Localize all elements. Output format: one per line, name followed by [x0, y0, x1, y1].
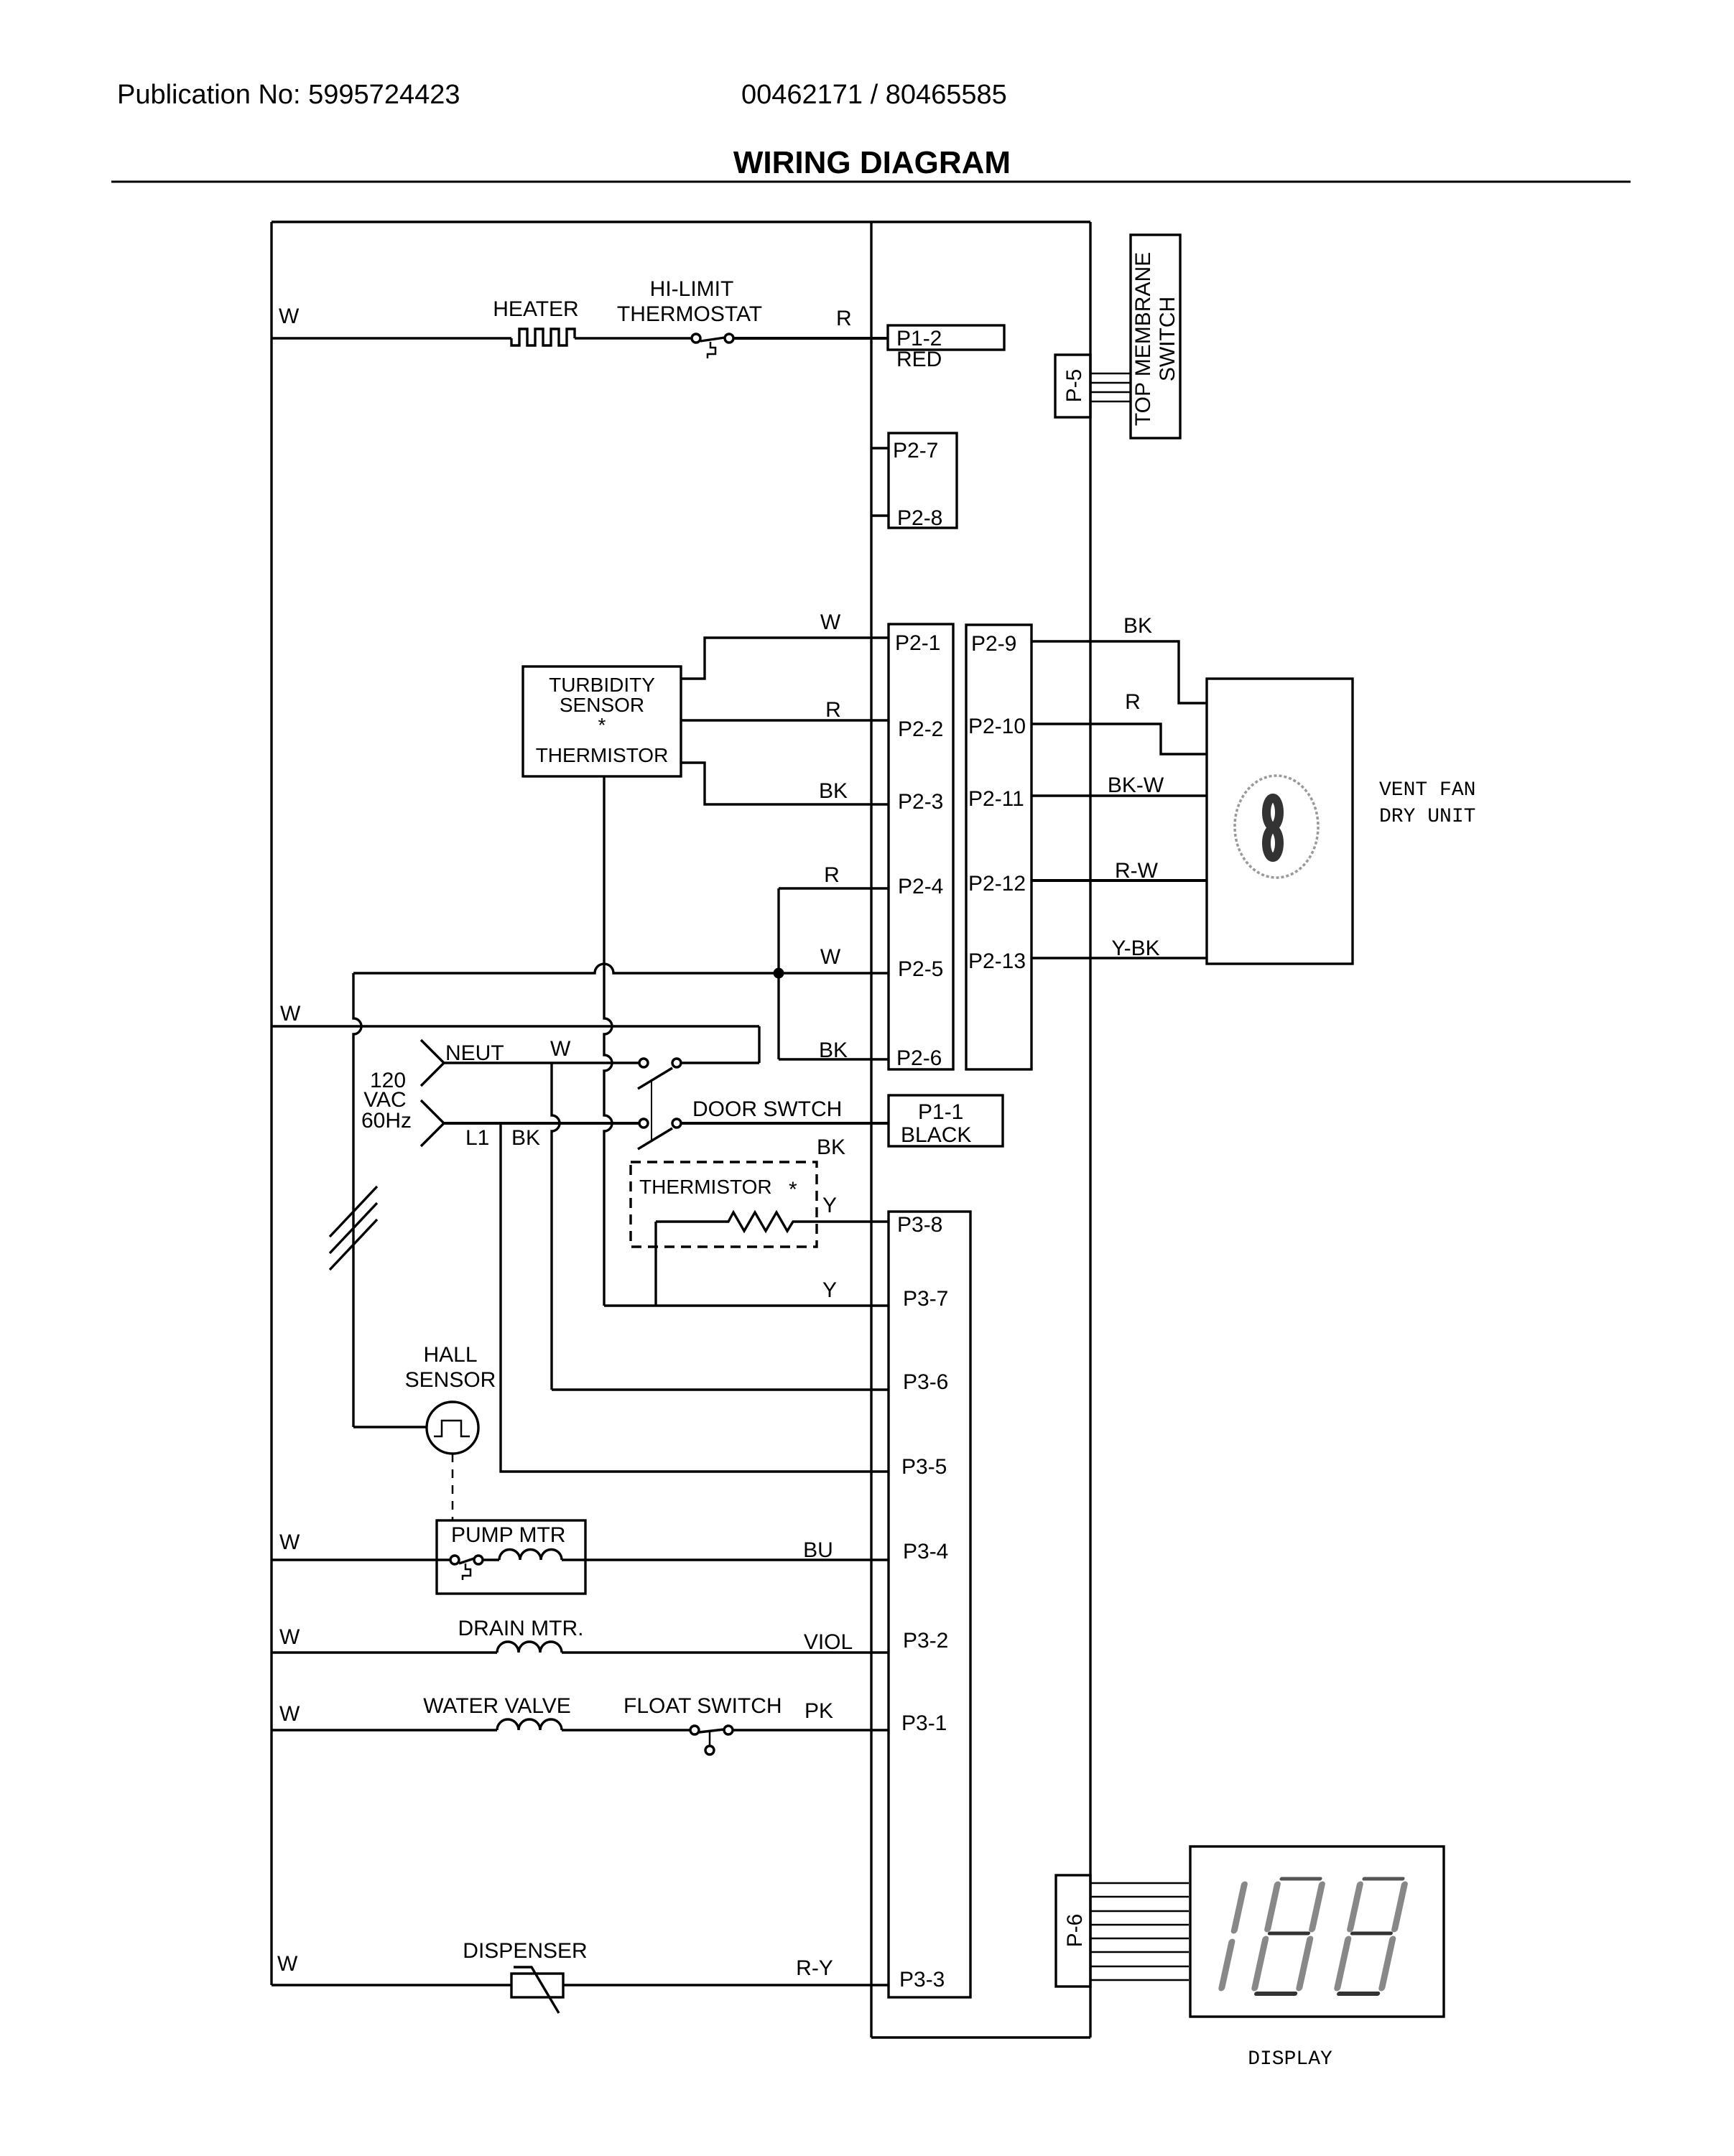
- title rule: [111, 181, 1631, 183]
- thermistor dashed box: [631, 1162, 817, 1247]
- svg-text:WATER VALVE: WATER VALVE: [423, 1694, 571, 1718]
- wire BK branch L1 down to P3-5: [501, 1123, 889, 1472]
- wire turbidity sensor down to Y net: [604, 776, 612, 1306]
- wire top edge of schematic frame: [272, 220, 1090, 223]
- top membrane switch box: [1131, 235, 1180, 438]
- control board bottom edge: [871, 2036, 1090, 2038]
- svg-text:Y: Y: [822, 1194, 837, 1217]
- svg-text:Y: Y: [822, 1278, 837, 1302]
- svg-text:P2-7: P2-7: [893, 439, 938, 463]
- svg-text:R: R: [836, 307, 852, 330]
- drain motor winding: [497, 1642, 562, 1653]
- svg-text:DOOR SWTCH: DOOR SWTCH: [692, 1097, 842, 1121]
- wire door switch to W rail riser: [681, 1061, 759, 1064]
- door switch mechanical link: [651, 1080, 652, 1140]
- wire BK P2-9 to vent fan: [1031, 641, 1207, 703]
- wire R to P2-4: [779, 887, 889, 889]
- svg-text:THERMISTOR: THERMISTOR: [536, 744, 669, 766]
- wire valve to float switch: [562, 1729, 690, 1731]
- svg-text:P2-3: P2-3: [898, 790, 943, 814]
- svg-text:SENSOR: SENSOR: [560, 694, 644, 716]
- svg-text:P2-8: P2-8: [897, 506, 942, 530]
- pump winding: [483, 1558, 499, 1561]
- dispenser element: [511, 1974, 563, 1997]
- wire heater to thermostat: [575, 337, 692, 339]
- svg-text:60Hz: 60Hz: [361, 1109, 412, 1133]
- wire P-5 ribbon 4: [1090, 401, 1131, 403]
- connector P-6: [1056, 1875, 1090, 1987]
- wire P-5 ribbon 1: [1090, 373, 1131, 375]
- svg-text:Publication No: 5995724423: Publication No: 5995724423: [117, 80, 460, 110]
- svg-text:Y-BK: Y-BK: [1111, 937, 1159, 960]
- wire P-6 ribbon: [1090, 1882, 1189, 1885]
- node NEUT chevron: [421, 1040, 444, 1086]
- svg-text:W: W: [820, 945, 841, 969]
- control board right edge: [1089, 222, 1091, 2037]
- svg-text:P3-2: P3-2: [903, 1629, 948, 1653]
- wire BK-W P2-11 to vent fan: [1031, 794, 1207, 796]
- node junction dot W bus: [774, 968, 784, 978]
- svg-text:THERMISTOR: THERMISTOR: [639, 1176, 772, 1198]
- svg-text:W: W: [277, 1952, 298, 1976]
- turbidity sensor box: [523, 666, 681, 776]
- svg-text:DISPENSER: DISPENSER: [463, 1939, 587, 1963]
- wire Y-BK P2-13 to vent fan: [1031, 957, 1207, 959]
- svg-text:DRY UNIT: DRY UNIT: [1379, 806, 1475, 828]
- connector P2-7 P2-8 box: [889, 433, 957, 528]
- float switch: [690, 1726, 699, 1734]
- svg-text:P-6: P-6: [1063, 1914, 1087, 1948]
- wire bus P2-4 to P2-6: [777, 888, 779, 1059]
- svg-text:WIRING DIAGRAM: WIRING DIAGRAM: [733, 145, 1011, 180]
- wire thermistor left leg: [654, 1222, 657, 1306]
- svg-text:W: W: [280, 1002, 301, 1026]
- svg-text:P3-6: P3-6: [903, 1370, 948, 1394]
- svg-text:BK: BK: [817, 1135, 845, 1159]
- svg-text:L1: L1: [465, 1126, 489, 1150]
- svg-text:BK: BK: [511, 1126, 540, 1150]
- wire pin P2-7: [871, 447, 889, 449]
- svg-text:DRAIN MTR.: DRAIN MTR.: [458, 1617, 584, 1640]
- svg-text:VIOL: VIOL: [804, 1630, 853, 1654]
- svg-text:BU: BU: [803, 1538, 833, 1562]
- svg-text:P2-4: P2-4: [898, 875, 943, 898]
- wire hall sensor to pump dashed: [452, 1454, 454, 1520]
- wire PK float switch to P3-1: [733, 1729, 889, 1731]
- heater HEATER element: [511, 329, 575, 345]
- svg-text:SENSOR: SENSOR: [405, 1368, 496, 1392]
- wire R-W P2-12 to vent fan: [1031, 879, 1207, 882]
- svg-text:BK: BK: [819, 779, 848, 803]
- vent fan dry unit box: [1207, 679, 1353, 964]
- svg-text:TURBIDITY: TURBIDITY: [549, 674, 655, 696]
- display seven-segment digits: [1222, 1879, 1406, 1994]
- svg-text:00462171 / 80465585: 00462171 / 80465585: [741, 80, 1007, 110]
- svg-text:BK: BK: [1123, 614, 1152, 638]
- connector P1-1 BLACK: [889, 1095, 1003, 1146]
- wire Y to P3-7: [604, 1304, 889, 1306]
- wire VIOL drain to P3-2: [562, 1651, 889, 1653]
- svg-text:R: R: [1125, 690, 1141, 714]
- wire pin P2-8: [871, 514, 889, 516]
- wire W to pump: [272, 1558, 450, 1561]
- svg-text:P3-3: P3-3: [899, 1968, 945, 1992]
- display box: [1190, 1846, 1444, 2017]
- svg-text:*: *: [789, 1178, 797, 1202]
- svg-text:HEATER: HEATER: [493, 297, 578, 321]
- thermistor resistor: [656, 1212, 889, 1231]
- connector P1-2 RED: [888, 325, 1004, 350]
- wire R thermostat to P1-2: [733, 337, 888, 340]
- svg-text:P2-1: P2-1: [895, 631, 940, 655]
- door switch pole 2: [639, 1119, 648, 1128]
- svg-text:P-5: P-5: [1062, 369, 1086, 403]
- wire BK door switch to P1-1: [681, 1122, 889, 1125]
- wire R P2-10 to vent fan: [1031, 724, 1207, 754]
- connector P2-1..P2-6 box: [889, 624, 953, 1069]
- pump motor box: [437, 1520, 585, 1594]
- wire R-Y dispenser to P3-3: [563, 1984, 889, 1986]
- svg-text:*: *: [598, 714, 606, 736]
- svg-text:P2-13: P2-13: [968, 949, 1026, 973]
- wire BU pump to P3-4: [562, 1558, 889, 1561]
- svg-text:P2-9: P2-9: [971, 632, 1016, 656]
- svg-text:P2-6: P2-6: [896, 1046, 942, 1070]
- connector P-5: [1055, 355, 1090, 417]
- svg-text:P2-2: P2-2: [898, 717, 943, 741]
- svg-text:HALL: HALL: [423, 1343, 477, 1367]
- svg-text:R-Y: R-Y: [796, 1956, 833, 1980]
- svg-text:P3-5: P3-5: [901, 1455, 947, 1479]
- svg-text:P2-10: P2-10: [968, 715, 1026, 738]
- wire W to drain motor: [272, 1651, 497, 1653]
- svg-text:P3-1: P3-1: [901, 1711, 947, 1735]
- wire R turbidity to P2-2: [681, 719, 889, 721]
- wire W branch NEUT down to P3-6: [552, 1063, 560, 1390]
- svg-text:W: W: [279, 1702, 300, 1726]
- svg-text:P2-5: P2-5: [898, 957, 943, 981]
- svg-text:P1-1: P1-1: [918, 1100, 963, 1124]
- svg-text:R: R: [825, 698, 841, 722]
- vent fan symbol: [1235, 776, 1318, 878]
- wire W to heater: [272, 337, 511, 339]
- wire W rail branch down to hall sensor: [353, 973, 361, 1427]
- svg-text:R-W: R-W: [1115, 859, 1159, 883]
- connector P3 box: [889, 1212, 970, 1997]
- svg-text:HI-LIMIT: HI-LIMIT: [650, 277, 734, 301]
- svg-text:P3-4: P3-4: [903, 1540, 948, 1563]
- wire W turbidity to P2-1: [681, 638, 889, 679]
- water valve winding: [497, 1719, 562, 1730]
- wire P-5 ribbon 3: [1090, 391, 1131, 394]
- cable slash marks: [330, 1186, 377, 1237]
- connector P2-9..P2-13 box: [966, 625, 1031, 1069]
- svg-text:W: W: [820, 610, 841, 634]
- svg-text:W: W: [279, 1530, 300, 1554]
- wire W return to left rail: [272, 1025, 759, 1027]
- svg-text:PUMP MTR: PUMP MTR: [451, 1523, 565, 1547]
- wire W to P2-5: [353, 964, 889, 973]
- svg-text:BK: BK: [819, 1038, 848, 1062]
- wire P-5 ribbon 2: [1090, 382, 1131, 384]
- svg-text:P2-11: P2-11: [968, 787, 1024, 811]
- svg-text:W: W: [550, 1037, 571, 1061]
- wire NEUT to door switch: [444, 1061, 639, 1064]
- svg-text:BLACK: BLACK: [901, 1123, 971, 1147]
- svg-text:SWITCH: SWITCH: [1156, 297, 1179, 381]
- svg-text:VENT FAN: VENT FAN: [1379, 779, 1475, 801]
- svg-text:THERMOSTAT: THERMOSTAT: [617, 302, 762, 326]
- svg-text:RED: RED: [896, 348, 942, 371]
- svg-text:R: R: [824, 863, 840, 887]
- wire BK turbidity to P2-3: [681, 763, 889, 804]
- door switch pole 1: [639, 1059, 648, 1067]
- svg-text:P2-12: P2-12: [968, 872, 1026, 896]
- svg-text:PK: PK: [805, 1699, 833, 1723]
- svg-text:W: W: [279, 1625, 300, 1649]
- svg-text:BK-W: BK-W: [1108, 773, 1164, 797]
- pump thermal switch: [450, 1556, 459, 1564]
- wire W to water valve: [272, 1729, 497, 1731]
- svg-text:P3-7: P3-7: [903, 1287, 948, 1311]
- control board left edge: [870, 222, 872, 2037]
- wire left W rail: [270, 222, 272, 1985]
- wire L1 to door switch: [444, 1122, 639, 1125]
- svg-text:FLOAT SWITCH: FLOAT SWITCH: [623, 1694, 782, 1718]
- svg-text:NEUT: NEUT: [445, 1041, 504, 1065]
- svg-text:DISPLAY: DISPLAY: [1248, 2048, 1332, 2071]
- wire BK to P2-6: [779, 1058, 889, 1060]
- node L1 chevron: [421, 1100, 444, 1146]
- wire W to dispenser: [272, 1984, 511, 1986]
- svg-text:P3-8: P3-8: [897, 1213, 942, 1237]
- svg-text:TOP MEMBRANE: TOP MEMBRANE: [1131, 252, 1155, 426]
- svg-text:W: W: [279, 305, 300, 328]
